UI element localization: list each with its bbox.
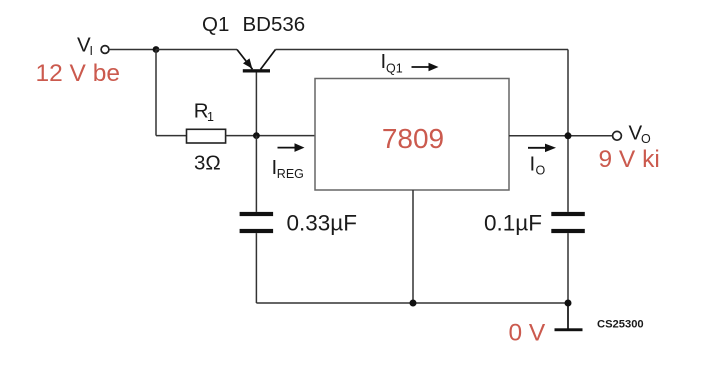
wire input to junction	[109, 49, 156, 51]
svg-text:CS25300: CS25300	[597, 319, 644, 331]
svg-text:9 V ki: 9 V ki	[599, 146, 660, 173]
svg-text:0.1µF: 0.1µF	[484, 211, 542, 236]
current arrow IREG	[278, 143, 305, 152]
junction base node	[253, 132, 260, 139]
svg-text:Q1: Q1	[202, 13, 229, 36]
svg-text:I: I	[530, 153, 536, 176]
wire C1 top lead	[255, 136, 257, 212]
ground	[555, 328, 583, 331]
svg-text:7809: 7809	[382, 123, 444, 154]
wire right vertical upper	[567, 50, 569, 212]
wire bottom rail	[256, 302, 568, 304]
wire left vertical to R1	[155, 50, 157, 136]
label IO	[530, 153, 546, 178]
svg-text:Q1: Q1	[386, 62, 403, 76]
current arrow IQ1	[412, 63, 439, 72]
wire collector to right corner	[276, 49, 569, 51]
wire ground stem	[567, 303, 569, 329]
wire left to resistor	[156, 135, 187, 137]
wire C2 bottom	[567, 233, 569, 303]
label R1	[194, 100, 214, 125]
svg-text:0.33µF: 0.33µF	[287, 211, 358, 236]
capacitor C2	[551, 212, 585, 233]
svg-text:3Ω: 3Ω	[194, 152, 221, 175]
label IQ1	[381, 50, 403, 76]
wire box output to terminal	[509, 135, 612, 137]
transistor Q1	[237, 50, 276, 136]
label VI	[77, 34, 93, 59]
current arrow IO	[528, 144, 556, 153]
svg-text:O: O	[536, 164, 546, 178]
capacitor C1	[240, 212, 274, 233]
svg-text:O: O	[641, 132, 651, 146]
svg-text:1: 1	[207, 110, 214, 124]
wire resistor to junction to box	[226, 135, 315, 137]
svg-text:12 V be: 12 V be	[36, 60, 120, 87]
junction input node	[153, 46, 160, 53]
junction bottom right node	[565, 300, 572, 307]
svg-text:I: I	[90, 44, 93, 58]
input terminal circle	[101, 46, 109, 54]
label IREG	[272, 156, 304, 181]
svg-text:0 V: 0 V	[509, 319, 546, 346]
svg-text:BD536: BD536	[243, 13, 306, 36]
output terminal circle	[613, 131, 622, 140]
junction regulator ground node	[410, 300, 417, 307]
svg-text:REG: REG	[277, 167, 304, 181]
label VO	[629, 122, 652, 147]
regulator U1 box	[315, 79, 509, 191]
wire C1 bottom	[255, 233, 257, 303]
wire junction to emitter bend	[156, 49, 237, 51]
resistor R1	[187, 129, 226, 143]
wire regulator ground lead	[412, 190, 414, 303]
junction output node	[565, 132, 572, 139]
